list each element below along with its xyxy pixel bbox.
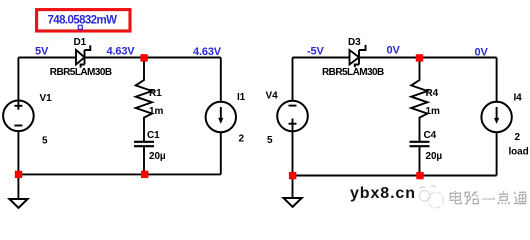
svg-text:I1: I1	[237, 92, 246, 103]
svg-text:R1: R1	[149, 88, 162, 99]
svg-text:0V: 0V	[475, 47, 489, 59]
svg-text:D1: D1	[74, 37, 87, 48]
svg-text:5: 5	[42, 136, 48, 147]
svg-text:2: 2	[515, 132, 521, 143]
svg-text:0V: 0V	[387, 45, 401, 57]
svg-text:ybx8.cn: ybx8.cn	[350, 185, 416, 202]
svg-text:C1: C1	[147, 130, 160, 141]
svg-text:20µ: 20µ	[426, 151, 443, 162]
svg-text:C4: C4	[424, 130, 437, 141]
svg-text:-5V: -5V	[307, 46, 324, 58]
svg-text:4.63V: 4.63V	[193, 46, 222, 58]
svg-text:I4: I4	[514, 93, 523, 104]
svg-text:4.63V: 4.63V	[107, 46, 136, 58]
svg-text:RBR5LAM30B: RBR5LAM30B	[322, 67, 384, 78]
svg-text:5V: 5V	[35, 46, 49, 58]
svg-text:RBR5LAM30B: RBR5LAM30B	[50, 67, 112, 78]
svg-text:2: 2	[239, 134, 245, 145]
svg-text:1m: 1m	[426, 106, 440, 117]
svg-text:5: 5	[267, 135, 273, 146]
svg-text:D3: D3	[348, 37, 361, 48]
svg-text:R4: R4	[426, 88, 439, 99]
svg-text:20µ: 20µ	[149, 151, 166, 162]
svg-text:1m: 1m	[149, 106, 163, 117]
svg-text:V1: V1	[40, 93, 53, 104]
svg-text:V4: V4	[266, 91, 279, 102]
svg-text:load: load	[509, 147, 529, 158]
